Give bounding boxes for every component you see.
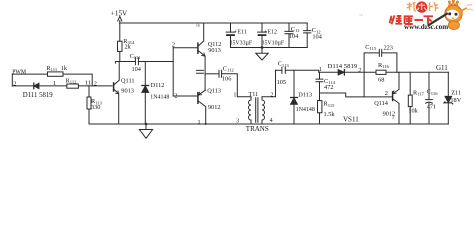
svg-text:R112: R112 <box>66 78 78 85</box>
watermark char pian <box>430 2 439 11</box>
junction artifact marks <box>197 70 204 73</box>
watermark mascot crown <box>448 0 458 6</box>
svg-text:VS11: VS11 <box>343 116 359 124</box>
svg-text:2k: 2k <box>125 44 132 51</box>
transformer T11 secondary <box>262 97 265 124</box>
svg-text:+E11: +E11 <box>234 29 247 35</box>
capacitor C116 <box>426 72 433 124</box>
svg-text:1.5k: 1.5k <box>324 111 336 118</box>
svg-text:104: 104 <box>312 34 322 41</box>
wire PWM left vertical <box>11 74 13 86</box>
svg-text:9012: 9012 <box>208 104 221 111</box>
resistor R314 <box>118 41 123 51</box>
watermark char wei <box>390 15 403 24</box>
capacitor C111 <box>135 58 138 65</box>
wire C113 right to node 1 <box>286 70 319 72</box>
wire R314 bottom to C111 node <box>119 51 121 61</box>
capacitor C114 <box>316 79 323 82</box>
capacitor C114 leads <box>319 72 321 93</box>
svg-text:3: 3 <box>392 115 394 120</box>
watermark faint dot <box>360 14 364 17</box>
svg-text:472: 472 <box>324 84 333 91</box>
transistor Q112 <box>198 23 205 56</box>
capacitor C115 loop <box>364 53 397 72</box>
wire D114 to R116 <box>345 71 376 73</box>
wire left branch R314 top <box>119 23 121 41</box>
wire C111 left <box>115 62 135 64</box>
svg-text:D112: D112 <box>151 82 165 89</box>
watermark char yi <box>415 19 424 21</box>
resistor R115 <box>318 93 322 124</box>
svg-text:1: 1 <box>53 80 56 87</box>
transistor Q114 <box>393 72 399 124</box>
watermark faint wing <box>467 5 474 10</box>
wire bottom ground rail <box>89 123 448 125</box>
capacitor C12 <box>304 23 311 48</box>
wire D111 to R112 <box>39 85 67 87</box>
svg-text:35V33µF: 35V33µF <box>230 40 253 46</box>
svg-text:104: 104 <box>289 33 299 40</box>
watermark logo <box>360 0 474 31</box>
svg-text:18V: 18V <box>450 97 461 104</box>
svg-text:106: 106 <box>222 75 231 82</box>
svg-text:D113: D113 <box>298 92 312 99</box>
diode D112 <box>142 86 149 93</box>
capacitor E11 <box>226 23 235 48</box>
svg-text:+15V: +15V <box>111 9 128 17</box>
svg-text:2: 2 <box>172 42 175 49</box>
wire C111 right to node <box>139 61 174 63</box>
diode D113 leads <box>293 70 295 124</box>
svg-text:2: 2 <box>174 93 177 100</box>
watermark char ku <box>404 16 413 24</box>
resistor R117 <box>408 72 412 124</box>
svg-text:T11: T11 <box>249 91 259 98</box>
watermark mascot pen <box>428 13 448 25</box>
resistor R111 <box>48 72 64 76</box>
svg-text:1N4148: 1N4148 <box>150 94 169 100</box>
svg-text:+E12: +E12 <box>264 29 277 35</box>
svg-text:Q113: Q113 <box>207 88 221 95</box>
svg-text:104: 104 <box>132 66 142 73</box>
svg-text:TRANS: TRANS <box>246 125 269 133</box>
svg-text:Z11: Z11 <box>451 90 461 97</box>
svg-text:C113: C113 <box>278 61 290 68</box>
svg-text:C116: C116 <box>427 89 439 96</box>
wire C113 left <box>276 69 282 71</box>
transistor Q111 <box>114 62 120 125</box>
capacitor C112 <box>219 70 222 77</box>
diode D111 <box>34 83 39 89</box>
svg-text:R115: R115 <box>324 101 336 108</box>
capacitor C115 <box>379 49 381 56</box>
svg-text:3: 3 <box>236 118 239 124</box>
svg-text:105: 105 <box>277 79 286 86</box>
svg-text:330: 330 <box>91 104 100 111</box>
svg-text:(n: (n <box>197 24 200 28</box>
resistor R113 <box>87 97 91 109</box>
transistor Q113 <box>173 90 206 124</box>
capacitor C11 <box>285 23 293 48</box>
watermark char xia <box>424 16 434 24</box>
svg-text:1: 1 <box>234 93 237 99</box>
zener Z11 <box>444 72 453 124</box>
wire T11 pin2 to C113 branch <box>262 70 276 97</box>
svg-text:9013: 9013 <box>208 47 221 54</box>
watermark red disc <box>416 1 427 12</box>
svg-text:2: 2 <box>13 81 16 88</box>
svg-text:35V10µF: 35V10µF <box>262 40 285 46</box>
wire output node to C112 <box>205 73 219 75</box>
junction Q113 collector on rail <box>205 123 207 125</box>
svg-text:1N4148: 1N4148 <box>296 107 315 113</box>
watermark char zhao <box>407 2 417 11</box>
svg-text:R116: R116 <box>378 62 390 69</box>
wire +15V stub <box>119 21 121 24</box>
svg-text:www.dzsc.com: www.dzsc.com <box>404 23 448 31</box>
svg-text:11: 11 <box>85 80 91 87</box>
wire PWM top with R111 <box>12 73 47 75</box>
transformer T11 core <box>256 98 258 123</box>
svg-text:10k: 10k <box>408 108 418 115</box>
wire R111 right to junction <box>63 74 92 86</box>
diode D112 vertical leads <box>144 62 146 125</box>
capacitor E12 <box>258 23 267 48</box>
svg-text:2: 2 <box>358 67 361 74</box>
svg-text:R117: R117 <box>413 89 425 96</box>
wire C114 bottom step to Q114 base <box>320 93 393 97</box>
svg-text:C111: C111 <box>130 53 141 60</box>
diode D114 <box>338 70 344 75</box>
svg-text:C112: C112 <box>223 65 235 72</box>
wire Q112 emitter vertical <box>204 56 206 90</box>
svg-text:471: 471 <box>427 104 436 111</box>
watermark mascot arm raised <box>462 8 468 12</box>
svg-text:C115: C115 <box>365 44 377 51</box>
svg-text:G11: G11 <box>436 64 448 72</box>
wire R112 to Q111 base <box>78 85 112 87</box>
svg-text:Q111: Q111 <box>121 77 135 84</box>
svg-text:2: 2 <box>94 81 97 88</box>
ground symbol main <box>139 123 152 139</box>
svg-text:4: 4 <box>270 118 273 124</box>
svg-text:1: 1 <box>319 66 322 73</box>
watermark mascot eyes <box>448 12 451 15</box>
wire R116 to G11 <box>386 71 448 73</box>
wire mid vertical base node <box>172 48 174 96</box>
resistor R112 <box>67 84 79 88</box>
watermark mascot head <box>445 5 462 22</box>
svg-text:2: 2 <box>385 90 388 97</box>
wire R113 bottom to rail corner <box>88 109 90 124</box>
svg-text:D114 5819: D114 5819 <box>328 63 358 70</box>
wire node1 to D114 <box>319 71 338 73</box>
transformer T11 primary <box>249 97 252 124</box>
+15V arrow <box>118 16 122 21</box>
wire capacitor bank bottom <box>231 47 308 49</box>
watermark mascot body <box>448 21 459 30</box>
svg-text:68: 68 <box>378 77 384 84</box>
capacitor C113 <box>282 67 285 73</box>
wire Q112 base <box>173 47 197 49</box>
wire PWM bottom left <box>12 85 34 87</box>
svg-text:R111 1k: R111 1k <box>46 65 67 72</box>
ground symbol caps <box>256 46 268 60</box>
svg-text:Q114: Q114 <box>374 100 389 107</box>
wire top +15V rail <box>120 22 307 24</box>
wire C112 right and down to T11 pin1 <box>222 74 251 97</box>
svg-text:3: 3 <box>198 121 201 126</box>
resistor R116 <box>376 70 386 74</box>
svg-text:2: 2 <box>270 92 273 98</box>
watermark mascot mouth <box>452 17 454 20</box>
watermark mascot face <box>446 10 459 20</box>
diode D113 <box>291 98 298 105</box>
svg-text:223: 223 <box>384 44 393 51</box>
wire D114 node down <box>363 72 365 97</box>
svg-text:D111 5819: D111 5819 <box>23 92 53 99</box>
svg-text:9013: 9013 <box>121 88 134 95</box>
svg-text:PWM: PWM <box>12 69 26 75</box>
wire R113 top lead <box>88 86 90 97</box>
